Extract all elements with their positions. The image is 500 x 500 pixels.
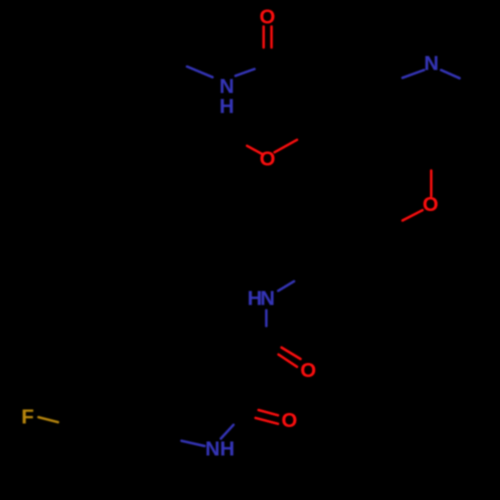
bond N6-C(=O) (blue half, vertical) <box>265 310 268 326</box>
svg-text:N: N <box>205 438 220 460</box>
ketone O7 double bond line 2 <box>279 355 298 367</box>
amide carbonyl O1 double bond line 2 <box>270 27 273 48</box>
bond N9-C7a (blue half) <box>182 441 205 446</box>
bond N2-C1 (blue half) <box>236 69 255 76</box>
svg-text:N: N <box>260 288 275 310</box>
bond O5-C4quinoline (red half, vertical) <box>430 171 433 197</box>
bond F10-Caryl (gold half) <box>39 417 59 422</box>
oxindole C2=O8 double bond line 1 <box>259 410 279 415</box>
svg-text:N: N <box>220 76 235 98</box>
ketone O7 double bond line 1 <box>282 348 301 360</box>
svg-text:N: N <box>424 53 439 75</box>
svg-text:O: O <box>282 410 298 432</box>
svg-text:O: O <box>300 360 316 382</box>
svg-text:H: H <box>220 96 235 118</box>
bond N9-C2 (blue half) <box>221 425 234 439</box>
svg-text:F: F <box>21 405 34 428</box>
bond quinoline N3-C8a (blue half) <box>403 70 425 78</box>
bond O4-CH3 (red half) <box>247 146 262 154</box>
svg-text:O: O <box>260 148 276 170</box>
bond O5-Caryl (red half, diagonal) <box>403 210 423 220</box>
bond O4-C6ring (red half) <box>275 140 298 153</box>
amide carbonyl O1 double bond line 1 <box>262 27 265 48</box>
bond N6-Caryl (blue half) <box>278 281 294 291</box>
svg-text:O: O <box>259 6 275 28</box>
bond quinoline N3-C2 (blue half) <box>441 70 460 78</box>
svg-text:O: O <box>423 194 439 216</box>
oxindole C2=O8 double bond line 2 <box>256 418 279 424</box>
bond N2-CH3 (blue half) <box>187 67 213 78</box>
svg-text:H: H <box>220 438 235 460</box>
